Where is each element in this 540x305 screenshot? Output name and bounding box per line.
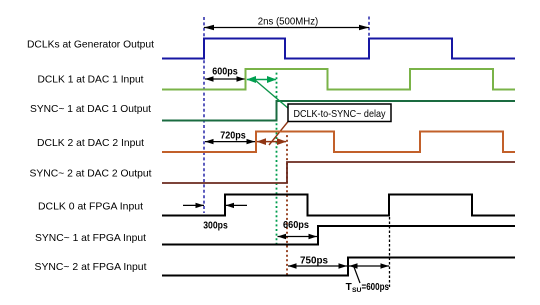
signal SYNC~ 1 at DAC 1 Output — [30, 101, 515, 121]
svg-text:DCLK-to-SYNC~ delay: DCLK-to-SYNC~ delay — [294, 108, 387, 120]
dotted reference line dark red (SYNC~2 edge) — [286, 131, 288, 276]
annotation 300ps — [183, 203, 247, 232]
annotation green delay arrow — [247, 76, 277, 83]
svg-text:T: T — [346, 282, 352, 293]
svg-text:720ps: 720ps — [220, 129, 246, 141]
signal SYNC~ 2 at FPGA Input — [35, 258, 516, 276]
svg-text:=600ps: =600ps — [362, 282, 390, 293]
svg-text:300ps: 300ps — [203, 219, 228, 231]
annotation 750ps — [288, 255, 347, 269]
leader line Tsu label — [354, 267, 360, 283]
callout box DCLK-to-SYNC~ delay — [288, 104, 391, 122]
signal SYNC~ 1 at FPGA Input — [35, 226, 515, 245]
svg-text:SYNC~ 1 at FPGA Input: SYNC~ 1 at FPGA Input — [35, 232, 146, 244]
dotted reference line blue (generator edge) — [203, 17, 205, 213]
svg-text:SYNC~ 1 at DAC 1 Output: SYNC~ 1 at DAC 1 Output — [30, 103, 151, 115]
svg-text:600ps: 600ps — [212, 66, 238, 78]
svg-text:SYNC~ 2 at FPGA Input: SYNC~ 2 at FPGA Input — [35, 261, 147, 273]
svg-text:DCLKs at Generator Output: DCLKs at Generator Output — [27, 38, 154, 50]
svg-text:DCLK 1 at DAC 1 Input: DCLK 1 at DAC 1 Input — [38, 74, 144, 86]
svg-text:750ps: 750ps — [300, 255, 328, 267]
svg-text:DCLK 0 at FPGA Input: DCLK 0 at FPGA Input — [38, 200, 143, 212]
svg-text:SU: SU — [352, 287, 362, 294]
signal DCLKs at Generator Output — [27, 38, 515, 58]
annotation Tsu=600ps arrow — [349, 263, 389, 268]
svg-text:660ps: 660ps — [283, 219, 309, 231]
svg-text:2ns (500MHz): 2ns (500MHz) — [258, 16, 319, 28]
svg-text:SYNC~ 2 at DAC 2 Output: SYNC~ 2 at DAC 2 Output — [30, 168, 152, 180]
annotation 2ns (500MHz) — [204, 16, 369, 31]
annotation 660ps — [278, 219, 318, 239]
annotation brown delay arrow — [257, 138, 287, 145]
signal SYNC~ 2 at DAC 2 Output — [30, 162, 516, 183]
annotation 600ps — [205, 66, 245, 82]
leader line brown to delay box — [269, 121, 289, 145]
signal DCLK 2 at DAC 2 Input — [37, 132, 515, 153]
signal DCLK 0 at FPGA Input — [38, 195, 515, 216]
signal DCLK 1 at DAC 1 Input — [38, 69, 516, 90]
annotation 720ps — [205, 129, 255, 144]
svg-text:DCLK 2 at DAC 2 Input: DCLK 2 at DAC 2 Input — [37, 137, 144, 149]
dotted reference line blue short (second generator edge) — [368, 17, 370, 39]
dotted reference line black (DCLK0 rising edge) — [389, 217, 391, 288]
dotted reference line green (SYNC~1 edge) — [276, 68, 278, 246]
leader line green to delay box — [255, 80, 289, 109]
